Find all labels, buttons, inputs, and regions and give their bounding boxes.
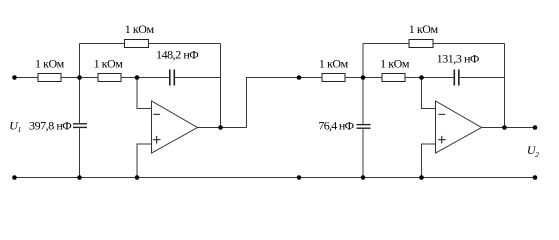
- svg-text:1 кОм: 1 кОм: [125, 22, 155, 36]
- svg-text:131,3 нФ: 131,3 нФ: [437, 52, 479, 66]
- svg-text:1 кОм: 1 кОм: [319, 56, 349, 70]
- svg-text:1 кОм: 1 кОм: [409, 22, 439, 36]
- svg-text:148,2 нФ: 148,2 нФ: [156, 47, 198, 61]
- svg-text:1 кОм: 1 кОм: [380, 56, 410, 70]
- svg-text:76,4 нФ: 76,4 нФ: [318, 119, 353, 133]
- svg-text:1 кОм: 1 кОм: [35, 56, 65, 70]
- svg-text:397,8 нФ: 397,8 нФ: [29, 118, 71, 132]
- svg-text:1 кОм: 1 кОм: [94, 56, 124, 70]
